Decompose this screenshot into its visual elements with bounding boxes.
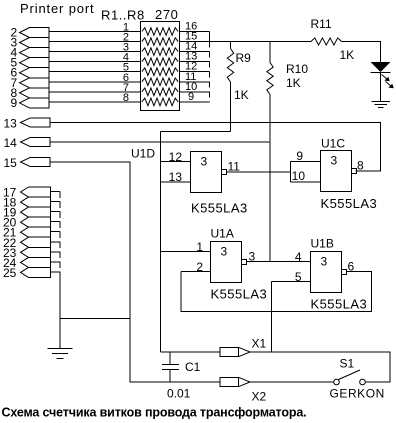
svg-text:9: 9 [11,96,18,110]
resistor R4 zigzag [142,58,178,66]
svg-text:13: 13 [4,117,18,131]
ground bus dashed [59,192,61,273]
stub pin 13 [180,61,210,63]
U1D output wire to U1C inputs [227,171,291,173]
U1C output wire [356,170,381,172]
svg-text:14: 14 [4,136,18,150]
ground bus solid down [59,272,61,349]
svg-text:K555LA3: K555LA3 [311,297,368,312]
wire R11 to LED [342,42,381,63]
resistor R3 zigzag [142,48,178,56]
stub pin 20 [51,221,61,223]
stub pin 9 [180,101,210,103]
svg-text:3: 3 [201,155,208,169]
U1B inversion bubble [342,270,347,275]
stub pin 17 [51,191,61,193]
stub pin 19 [51,211,61,213]
svg-text:3: 3 [331,154,338,168]
svg-text:X1: X1 [252,337,267,351]
ground symbol [48,348,73,350]
svg-text:8: 8 [123,92,129,104]
svg-text:R1..R8: R1..R8 [101,8,145,23]
wire X1 to S1 [250,352,390,382]
svg-text:270: 270 [155,7,179,22]
svg-text:U1C: U1C [321,137,345,151]
U1A output wire to U1B pin 4 [247,261,311,263]
wire pin 7 to R6 [49,81,141,83]
svg-text:4: 4 [295,250,302,264]
svg-text:U1D: U1D [131,147,155,161]
wire pin 4 to R3 [49,51,141,53]
svg-text:1K: 1K [234,88,249,102]
op-amp gate U1C K555LA3 [321,151,352,192]
svg-text:15: 15 [4,156,18,170]
svg-text:R9: R9 [236,51,252,65]
wire R10/pin14 down to U1A output [269,142,271,262]
LED light arrows [382,75,390,82]
resistor R9 [230,42,232,49]
U1D input stubs [161,161,191,163]
bus vertical right of network (solid top) [209,32,211,42]
switch S1 GERKON [334,379,340,385]
stub pin 14 [180,51,210,53]
stub pin 10 [180,91,210,93]
svg-text:U1B: U1B [311,237,334,251]
svg-text:K555LA3: K555LA3 [211,287,268,302]
wire pin 14 to R10 bottom [50,141,270,143]
svg-text:1K: 1K [340,48,355,62]
svg-text:Схема счетчика витков провода: Схема счетчика витков провода трансформа… [2,406,307,420]
ground under LED [372,101,391,103]
svg-text:25: 25 [3,266,17,280]
resistor R11 [311,38,342,45]
U1B output feedback to U1A pin 2 [181,272,372,312]
resistor R7 zigzag [142,88,178,96]
wire pin 3 to R2 [49,41,141,43]
wire pin 9 to R8 [49,101,141,103]
resistor network R1..R8 box [141,22,180,111]
svg-text:S1: S1 [340,357,355,371]
node R9/U1D/U1A-1/X1 net vertical [160,132,162,353]
connector X1 [220,347,239,356]
stub pin 22 [51,241,61,243]
wire X2 to S1 [250,381,334,383]
svg-text:1K: 1K [286,76,301,90]
wire ground bus to bottom rail [60,318,130,320]
svg-text:R11: R11 [311,17,332,31]
wire pin 6 to R5 [49,71,141,73]
svg-text:X2: X2 [252,390,267,404]
connector X2 [220,377,239,386]
op-amp gate U1D K555LA3 [191,152,222,193]
svg-text:9: 9 [188,91,194,103]
U1A inversion bubble [242,260,247,265]
resistor R10 [269,42,271,63]
svg-text:R10: R10 [286,62,308,76]
svg-text:3: 3 [221,245,228,259]
svg-text:11: 11 [228,160,241,174]
svg-text:0.01: 0.01 [167,387,191,401]
U1A input stubs [161,251,211,253]
resistor R6 zigzag [142,78,178,86]
stub pin 21 [51,231,61,233]
resistor R1 zigzag [142,28,178,36]
resistor R8 zigzag [142,98,178,106]
wire pin 15 to ground rail [50,162,220,382]
svg-text:C1: C1 [185,360,201,374]
wire pin 8 to R7 [49,91,141,93]
U1C input tie [290,162,292,183]
op-amp gate U1B K555LA3 [311,252,342,293]
svg-text:K555LA3: K555LA3 [191,201,248,216]
U1D inversion bubble [222,170,227,175]
resistor R2 zigzag [142,38,178,46]
stub pin 16 [180,31,210,33]
LED diode [371,62,391,72]
stub pin 25 [51,271,61,273]
stub pin 11 [180,81,210,83]
stub pin 15 [180,41,210,43]
stub pin 18 [51,201,61,203]
op-amp gate U1A K555LA3 [211,242,242,283]
wire pin 5 to R4 [49,61,141,63]
wire top bus to R11 [210,41,312,43]
stub pin 24 [51,261,61,263]
svg-text:GERKON: GERKON [330,387,385,401]
svg-text:8: 8 [357,159,364,173]
svg-text:10: 10 [292,169,306,183]
wire X1 net [161,351,221,353]
U1B input 5 stub [272,281,311,283]
svg-text:U1A: U1A [211,227,234,241]
wire pin 2 to R1 [49,31,141,33]
svg-text:3: 3 [321,255,328,269]
stub pin 23 [51,251,61,253]
svg-text:9: 9 [296,149,303,163]
U1C inversion bubble [352,169,357,174]
wire R9 bottom to U1D inputs [161,131,231,133]
wire pin 13 to U1C output net [50,123,381,172]
stub pin 12 [180,71,210,73]
resistor R5 zigzag [142,68,178,76]
svg-text:Printer port: Printer port [20,1,95,16]
node U1B pin5 to X1 net vertical [271,282,273,353]
bus vertical dashed [209,42,211,103]
capacitor C1 [169,352,171,364]
svg-text:K555LA3: K555LA3 [321,196,378,211]
